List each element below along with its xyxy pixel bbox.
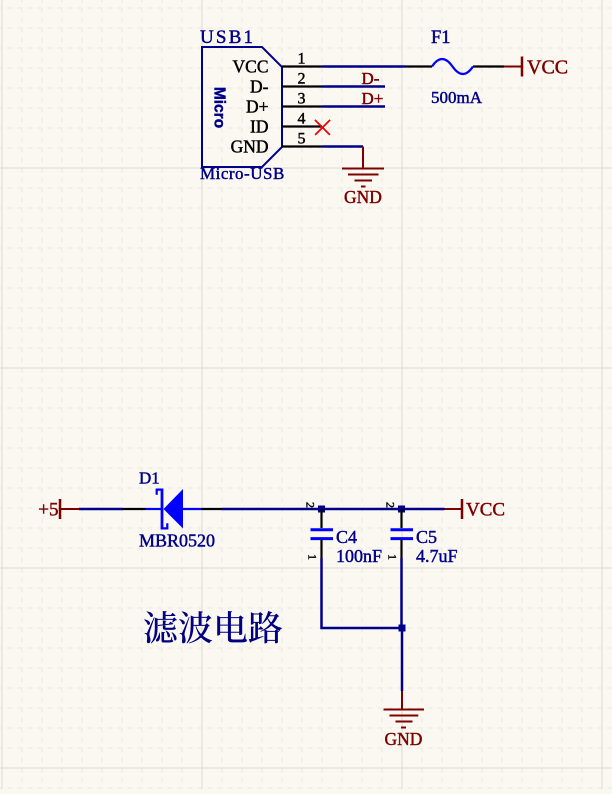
- svg-text:USB1: USB1: [200, 27, 255, 48]
- label Micro-USB (comment): [200, 164, 285, 183]
- svg-text:4.7uF: 4.7uF: [416, 546, 458, 566]
- svg-text:VCC: VCC: [466, 500, 505, 521]
- pin 3 (D+) of USB1: [246, 90, 322, 116]
- svg-text:VCC: VCC: [527, 56, 568, 78]
- svg-text:1: 1: [298, 50, 306, 67]
- capacitor C4 designator label: [336, 527, 357, 547]
- power port VCC (bottom): [445, 499, 506, 521]
- wire junction to GND: [401, 628, 404, 691]
- pin 2 (D-) of USB1: [250, 70, 322, 96]
- junction node below C5: [399, 625, 406, 632]
- power port GND (top): [342, 147, 384, 208]
- fuse F1: [406, 59, 504, 74]
- fuse F1 value label 500mA: [431, 88, 483, 107]
- svg-text:GND: GND: [231, 136, 269, 156]
- wire C5 bottom down: [400, 558, 403, 628]
- fuse F1 designator label: [431, 28, 451, 48]
- svg-text:+5: +5: [38, 500, 58, 521]
- svg-text:2: 2: [298, 70, 306, 87]
- svg-text:Micro-USB: Micro-USB: [200, 164, 285, 183]
- wire pin5 to GND: [322, 145, 363, 148]
- svg-text:100nF: 100nF: [336, 546, 382, 566]
- svg-text:C5: C5: [416, 527, 437, 547]
- net label D-: [362, 69, 380, 88]
- capacitor C5: [384, 502, 414, 560]
- svg-text:1: 1: [306, 554, 320, 560]
- svg-text:3: 3: [298, 90, 306, 107]
- pin 1 (VCC) of USB1: [233, 50, 322, 76]
- title text 滤波电路: [144, 611, 282, 644]
- capacitor C4 value label 100nF: [336, 546, 382, 566]
- svg-text:2: 2: [304, 502, 318, 508]
- capacitor C5 designator label: [416, 527, 437, 547]
- svg-text:D1: D1: [139, 469, 160, 488]
- connector USB1 vertical "Micro" label: [211, 87, 228, 128]
- wire diode to VCC rail: [222, 508, 445, 511]
- svg-text:D-: D-: [250, 76, 269, 96]
- svg-text:D-: D-: [362, 69, 380, 88]
- diode D1 (MBR0520 schottky): [123, 489, 222, 530]
- svg-text:4: 4: [298, 110, 306, 127]
- capacitor C5 value label 4.7uF: [416, 546, 458, 566]
- junction node at top of C4: [318, 506, 325, 513]
- power port GND (bottom): [384, 691, 425, 749]
- connector USB1 body outline: [202, 47, 282, 167]
- pin 5 (GND) of USB1: [231, 130, 322, 156]
- wire pin2 (D- net): [322, 85, 385, 88]
- svg-text:C4: C4: [336, 527, 357, 547]
- net label D+: [362, 89, 384, 108]
- capacitor C4: [304, 502, 334, 560]
- svg-text:2: 2: [384, 502, 398, 508]
- no-connect X on pin 4: [315, 120, 330, 135]
- wire C4 bottom down and across: [322, 558, 403, 628]
- svg-text:500mA: 500mA: [431, 88, 483, 107]
- wire +5 to diode D1: [79, 508, 123, 511]
- svg-text:VCC: VCC: [233, 56, 269, 76]
- diode D1 designator label: [139, 469, 160, 488]
- svg-text:1: 1: [386, 554, 400, 560]
- svg-text:GND: GND: [344, 187, 382, 207]
- svg-text:D+: D+: [246, 96, 269, 116]
- svg-text:5: 5: [298, 130, 306, 147]
- junction node at top of C5: [398, 506, 405, 513]
- pin 4 (ID) of USB1: [250, 110, 322, 136]
- power port +5: [38, 499, 79, 521]
- wire pin1 to fuse F1: [322, 65, 406, 68]
- connector USB1 designator label: [200, 27, 255, 48]
- svg-text:Micro: Micro: [211, 87, 228, 128]
- svg-text:F1: F1: [431, 28, 451, 48]
- svg-text:MBR0520: MBR0520: [139, 531, 215, 551]
- wire pin3 (D+ net): [322, 105, 385, 108]
- svg-text:GND: GND: [385, 729, 423, 749]
- svg-text:ID: ID: [250, 116, 268, 136]
- svg-text:D+: D+: [362, 89, 384, 108]
- diode D1 value label MBR0520: [139, 531, 215, 551]
- power port VCC (top): [504, 56, 568, 78]
